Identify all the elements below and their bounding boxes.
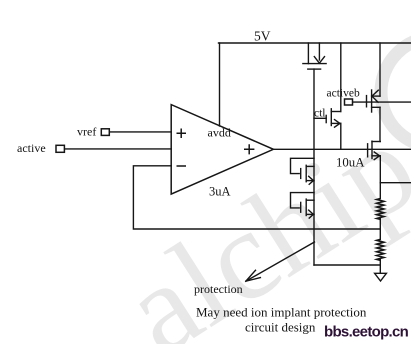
- svg-text:vref: vref: [77, 124, 96, 138]
- svg-text:activeb: activeb: [327, 88, 360, 100]
- svg-text:active: active: [17, 141, 46, 155]
- svg-text:5V: 5V: [254, 29, 271, 44]
- svg-text:circuit design: circuit design: [245, 320, 316, 335]
- svg-text:3uA: 3uA: [209, 185, 231, 199]
- svg-text:May need ion implant protectio: May need ion implant protection: [196, 305, 367, 320]
- svg-text:protection: protection: [194, 282, 243, 296]
- svg-text:10uA: 10uA: [336, 155, 365, 169]
- svg-text:avdd: avdd: [208, 126, 231, 140]
- svg-text:bbs.eetop.cn: bbs.eetop.cn: [324, 324, 409, 341]
- svg-text:ctl: ctl: [314, 108, 326, 120]
